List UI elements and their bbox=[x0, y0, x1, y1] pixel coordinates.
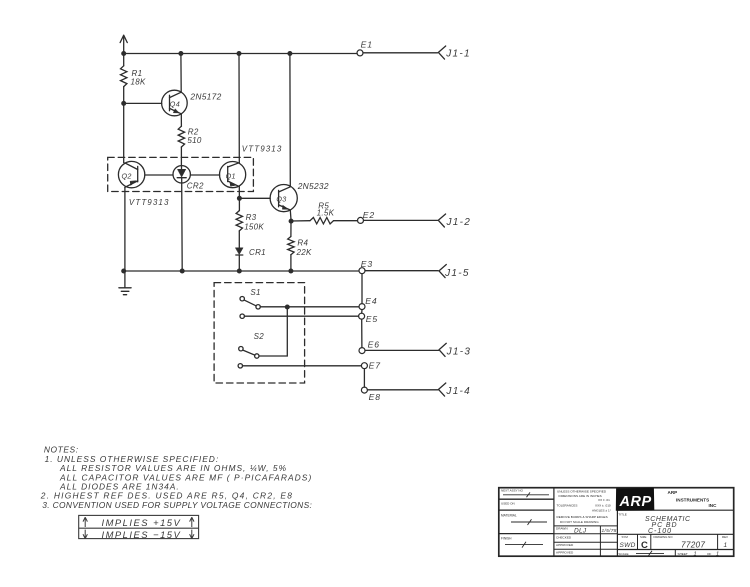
dashed box Q2/CR2/Q1 module bbox=[108, 157, 254, 191]
label R5 1.5K bbox=[317, 202, 335, 218]
diode CR2 bbox=[173, 166, 190, 183]
drawing number 77207 bbox=[681, 540, 705, 549]
finish cell bbox=[501, 536, 543, 547]
label E4 bbox=[365, 296, 377, 306]
svg-text:DRAWN: DRAWN bbox=[556, 527, 568, 531]
title block outer border bbox=[499, 488, 734, 557]
svg-text:77207: 77207 bbox=[681, 540, 705, 549]
svg-text:VTT9313: VTT9313 bbox=[129, 198, 170, 207]
drawn signature DLJ bbox=[574, 527, 587, 534]
label VTT9313 (Q1, above box) bbox=[242, 144, 283, 153]
wire contact to E7 bbox=[243, 365, 362, 367]
implies +15V row bbox=[102, 517, 182, 540]
wire Q3 emitter to node bbox=[289, 210, 292, 221]
switch S2 bbox=[239, 347, 259, 359]
down arrow right bbox=[190, 530, 194, 539]
svg-text:E2: E2 bbox=[363, 210, 375, 220]
transistor Q1 bbox=[220, 162, 246, 188]
+15V supply arrow bbox=[120, 35, 127, 53]
label R4 22K bbox=[296, 239, 312, 257]
node top rail at V2 bbox=[178, 51, 183, 56]
svg-text:SHEET: SHEET bbox=[678, 552, 688, 556]
terminal E4 bbox=[359, 304, 365, 310]
svg-text:DO NOT SCALE DRAWING: DO NOT SCALE DRAWING bbox=[560, 520, 599, 524]
svg-text:XX ± .01: XX ± .01 bbox=[598, 498, 610, 502]
label S2 bbox=[254, 332, 265, 341]
drawn/checked/approved rows bbox=[556, 527, 574, 555]
wire E8 to J1-4 bbox=[367, 389, 438, 391]
scale row bbox=[618, 551, 664, 556]
svg-text:S2: S2 bbox=[254, 332, 265, 341]
wire E4 to E5 bbox=[361, 310, 363, 314]
up arrow right bbox=[190, 517, 194, 527]
node Q3 emitter / R5 / R4 bbox=[289, 219, 294, 224]
svg-text:R3: R3 bbox=[246, 213, 257, 222]
svg-text:1: 1 bbox=[724, 542, 728, 549]
left column cell 2 label bbox=[501, 501, 515, 505]
svg-text:TOLERANCES: TOLERANCES bbox=[557, 503, 578, 507]
terminal E6 bbox=[359, 348, 365, 354]
svg-text:R4: R4 bbox=[297, 239, 308, 248]
wire E5 to E6 bbox=[361, 319, 363, 347]
svg-text:1: 1 bbox=[694, 552, 697, 558]
node bottom rail V2 bbox=[180, 269, 185, 274]
size row labels bbox=[622, 535, 729, 539]
TITLE BLOCK bbox=[499, 488, 734, 557]
label J1-4 bbox=[445, 386, 471, 397]
svg-text:E3: E3 bbox=[361, 259, 373, 269]
svg-text:J1-5: J1-5 bbox=[444, 268, 470, 279]
wire CR2 to bottom rail bbox=[181, 183, 184, 271]
svg-text:2N5172: 2N5172 bbox=[189, 92, 221, 102]
wire E7 to E8 bbox=[363, 369, 365, 387]
label Q2 bbox=[122, 171, 132, 180]
NOTES BLOCK bbox=[40, 445, 313, 510]
wire R2 to CR2 bbox=[180, 147, 182, 166]
connector J1-3 bbox=[439, 343, 446, 356]
wire Q1 emitter down to node bbox=[238, 187, 240, 199]
middle column row lines bbox=[554, 526, 618, 549]
supply convention box bbox=[79, 515, 199, 538]
svg-text:1/5/78: 1/5/78 bbox=[602, 528, 617, 534]
svg-text:E8: E8 bbox=[369, 392, 381, 402]
rev 1 bbox=[724, 542, 728, 549]
down arrow left bbox=[83, 530, 87, 539]
label E6 bbox=[368, 339, 380, 349]
svg-text:NEXT ASSY NO: NEXT ASSY NO bbox=[501, 489, 524, 493]
svg-text:J1-3: J1-3 bbox=[446, 346, 472, 357]
label CR1 bbox=[249, 248, 266, 257]
svg-text:IMPLIES +15V: IMPLIES +15V bbox=[102, 517, 182, 528]
node R1 to Q4 base junction bbox=[121, 101, 126, 106]
switch S1 second contact bbox=[240, 314, 244, 318]
wire E2 to J1-2 bbox=[364, 219, 438, 221]
ARP logo bbox=[616, 488, 654, 510]
svg-text:E1: E1 bbox=[361, 40, 373, 50]
label E1 bbox=[361, 40, 373, 50]
diode CR1 bbox=[236, 248, 244, 271]
svg-text:XXX ± .010: XXX ± .010 bbox=[595, 503, 611, 507]
label 2N5172 bbox=[189, 92, 221, 102]
dashed box switch module bbox=[214, 283, 305, 383]
node top rail at V1 bbox=[121, 51, 126, 56]
terminal E7 bbox=[361, 363, 367, 369]
wire Q4 base lead bbox=[124, 102, 162, 104]
svg-text:150K: 150K bbox=[244, 223, 264, 232]
svg-text:J1-2: J1-2 bbox=[446, 217, 472, 228]
svg-text:OF: OF bbox=[707, 552, 711, 556]
label Q3 bbox=[276, 195, 286, 204]
title block column dividers bbox=[554, 488, 618, 557]
wire node to R3 bbox=[238, 198, 240, 210]
node bottom rail V3 bbox=[237, 269, 242, 274]
svg-text:APPROVED: APPROVED bbox=[556, 551, 574, 555]
terminal E5 bbox=[359, 313, 365, 319]
svg-text:1: 1 bbox=[716, 552, 719, 558]
node switch junction bbox=[285, 305, 290, 310]
material cell bbox=[501, 513, 547, 525]
svg-text:Q2: Q2 bbox=[122, 171, 132, 180]
resistor R3 bbox=[236, 211, 242, 231]
svg-text:Q1: Q1 bbox=[226, 171, 236, 180]
switch S1 bbox=[240, 297, 260, 309]
label CR2 bbox=[187, 181, 204, 190]
svg-text:VTT9313: VTT9313 bbox=[242, 144, 283, 153]
svg-text:3. CONVENTION USED FOR SUPPLY: 3. CONVENTION USED FOR SUPPLY VOLTAGE CO… bbox=[42, 500, 312, 510]
svg-text:UNLESS OTHERWISE SPECIFIED: UNLESS OTHERWISE SPECIFIED bbox=[557, 489, 607, 493]
tolerances text block bbox=[557, 489, 612, 523]
title handwritten bbox=[645, 516, 691, 535]
svg-text:E6: E6 bbox=[368, 339, 380, 349]
size row cell dividers bbox=[638, 534, 718, 549]
label R1 18K bbox=[131, 69, 146, 86]
terminal E3 bbox=[359, 268, 365, 274]
transistor Q4 bbox=[162, 90, 188, 116]
svg-text:Q3: Q3 bbox=[276, 195, 286, 204]
wire E3 to E4 bbox=[361, 274, 363, 304]
ground bbox=[119, 271, 131, 295]
wire CR2 to Q1 base bbox=[190, 174, 219, 176]
svg-text:FINISH: FINISH bbox=[501, 536, 512, 540]
wire node to R5 bbox=[291, 220, 310, 222]
label 2N5232 bbox=[297, 181, 329, 191]
wire S2 throw up to junction bbox=[259, 307, 287, 356]
svg-text:INSTRUMENTS: INSTRUMENTS bbox=[676, 498, 709, 503]
svg-text:2N5232: 2N5232 bbox=[297, 181, 329, 191]
svg-text:E5: E5 bbox=[366, 314, 378, 324]
svg-text:REV: REV bbox=[722, 535, 728, 539]
label J1-1 bbox=[445, 48, 471, 59]
svg-text:J1-1: J1-1 bbox=[445, 48, 471, 59]
scale/sheet divider bbox=[674, 550, 676, 557]
wire R3 to CR1 bbox=[238, 231, 240, 248]
up arrow left bbox=[83, 517, 194, 538]
node top rail at V3 bbox=[237, 51, 242, 56]
svg-text:1.5K: 1.5K bbox=[317, 208, 335, 217]
label VTT9313 (Q2, below box) bbox=[129, 198, 170, 207]
label R3 150K bbox=[244, 213, 264, 231]
label E7 bbox=[369, 361, 382, 371]
connector J1-5 bbox=[439, 265, 446, 278]
svg-text:E7: E7 bbox=[369, 361, 382, 371]
svg-text:DRAWING NO: DRAWING NO bbox=[654, 535, 674, 539]
wire V2 Q4 emitter to R2 bbox=[180, 114, 182, 126]
svg-text:SCALE: SCALE bbox=[618, 552, 628, 556]
transistor Q3 bbox=[270, 185, 297, 212]
svg-text:SYM: SYM bbox=[622, 535, 629, 539]
svg-text:C: C bbox=[641, 540, 648, 551]
label J1-2 bbox=[446, 217, 472, 228]
svg-text:ANGLES ± 1°: ANGLES ± 1° bbox=[592, 508, 612, 512]
svg-text:CR1: CR1 bbox=[249, 248, 266, 257]
node bottom rail V4 bbox=[288, 269, 293, 274]
svg-text:REMOVE BURRS & SHARP EDGES: REMOVE BURRS & SHARP EDGES bbox=[557, 515, 608, 519]
resistor R5 bbox=[310, 218, 334, 224]
svg-text:DLJ: DLJ bbox=[574, 527, 587, 534]
signature/date sub divider bbox=[599, 526, 601, 556]
wire R4 to bottom rail bbox=[290, 255, 292, 271]
terminal E8 bbox=[361, 387, 367, 393]
label J1-5 bbox=[444, 268, 470, 279]
wire left vertical (V1) bbox=[124, 54, 125, 272]
terminal E1 bbox=[357, 50, 363, 56]
svg-text:CHECKED: CHECKED bbox=[556, 536, 572, 540]
node top rail at V4 bbox=[287, 51, 292, 56]
svg-text:IMPLIES −15V: IMPLIES −15V bbox=[102, 529, 182, 540]
label Q1 bbox=[226, 171, 236, 180]
transistor Q2 bbox=[118, 161, 144, 187]
svg-text:SWD: SWD bbox=[620, 542, 636, 549]
left column cell 1 label and none-mark bbox=[501, 489, 549, 498]
wire top rail bbox=[124, 52, 438, 55]
resistor R2 bbox=[178, 126, 184, 147]
label J1-3 bbox=[446, 346, 472, 357]
connector J1-4 bbox=[439, 383, 446, 396]
sheet row bbox=[678, 552, 720, 558]
wire Q2 base to CR2 bbox=[145, 174, 173, 176]
terminal E2 bbox=[358, 217, 364, 223]
svg-text:SIZE: SIZE bbox=[640, 535, 646, 539]
left column row lines bbox=[499, 498, 554, 500]
svg-text:S1: S1 bbox=[250, 288, 260, 297]
wire bottom rail bbox=[124, 270, 438, 272]
svg-text:2. HIGHEST REF DES. USED ARE: 2. HIGHEST REF DES. USED ARE R5, Q4, CR2… bbox=[40, 490, 293, 500]
swd handwritten bbox=[620, 542, 636, 549]
label E8 bbox=[369, 392, 381, 402]
connector J1-2 bbox=[438, 214, 445, 227]
label Q4 bbox=[170, 99, 180, 108]
svg-text:Q4: Q4 bbox=[170, 99, 180, 108]
resistor R1 bbox=[121, 66, 127, 87]
label E2 bbox=[363, 210, 375, 220]
wire V3 top rail to Q1 collector bbox=[238, 54, 240, 163]
resistor R4 bbox=[288, 237, 294, 255]
svg-text:ARP: ARP bbox=[668, 490, 678, 495]
svg-text:USED ON: USED ON bbox=[501, 501, 515, 505]
svg-text:INC: INC bbox=[709, 503, 718, 508]
label E5 bbox=[366, 314, 378, 324]
wire V4 top rail to Q3 collector bbox=[289, 54, 291, 187]
drawn date bbox=[602, 528, 617, 534]
svg-text:ARP: ARP bbox=[619, 494, 652, 510]
wire E6 to J1-3 bbox=[365, 349, 439, 351]
switch S2 second contact bbox=[238, 364, 242, 368]
connector J1-1 bbox=[438, 46, 445, 59]
svg-text:APPROVED: APPROVED bbox=[556, 543, 574, 547]
svg-text:22K: 22K bbox=[296, 248, 312, 257]
wire contact to E5 bbox=[244, 315, 358, 317]
label E3 bbox=[361, 259, 373, 269]
node bottom rail V1 bbox=[121, 269, 126, 274]
node Q1 emitter / Q3 base bbox=[237, 196, 242, 201]
size letter C bbox=[641, 540, 648, 551]
company name bbox=[668, 490, 718, 508]
wire R5 to E2 bbox=[334, 220, 358, 222]
label R2 510 bbox=[187, 128, 201, 145]
title label bbox=[618, 512, 626, 516]
svg-text:E4: E4 bbox=[365, 296, 377, 306]
wire V2 collector Q4 bbox=[180, 54, 182, 93]
right column row lines bbox=[617, 510, 733, 549]
svg-text:MATERIAL: MATERIAL bbox=[501, 513, 517, 517]
svg-text:510: 510 bbox=[187, 136, 201, 145]
svg-text:J1-4: J1-4 bbox=[445, 386, 471, 397]
svg-text:CR2: CR2 bbox=[187, 181, 204, 190]
wire S1 throw to E4 bbox=[260, 306, 359, 308]
label S1 bbox=[250, 288, 260, 297]
svg-text:TITLE: TITLE bbox=[618, 512, 626, 516]
svg-text:18K: 18K bbox=[131, 77, 146, 86]
wire node to R4 bbox=[290, 221, 292, 236]
wire Q3 base lead bbox=[239, 197, 270, 199]
svg-text:DIMENSIONS ARE IN INCHES: DIMENSIONS ARE IN INCHES bbox=[559, 494, 602, 498]
